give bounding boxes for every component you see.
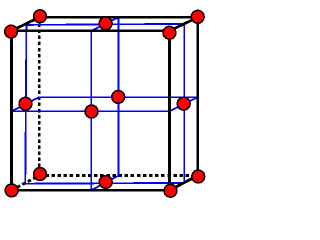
FCC unit cell diagram [0, 0, 213, 205]
hidden edge: bottom-left depth (dashed) [12, 176, 40, 191]
atom: back-bottom-right corner [192, 170, 205, 183]
atom: back-bottom-left corner [34, 168, 47, 181]
edge: front-left [10, 31, 13, 190]
edge: top-right depth [170, 17, 198, 31]
atom: back face center [112, 91, 125, 104]
atom: left face center [19, 97, 32, 110]
atom: front face center [85, 105, 98, 118]
edge: back-right vertical [196, 17, 199, 175]
atom: top face center [99, 17, 112, 30]
wire: bottom face depth midline (blue) [91, 176, 118, 191]
atom: front-bottom-right corner [164, 184, 177, 197]
wire: right face depth midline (blue) [170, 97, 198, 111]
atom: bottom face center [99, 176, 112, 189]
edge: front-top [12, 29, 170, 32]
wire: left face vertical midline (blue) [25, 25, 26, 184]
atom: front-top-right corner [163, 26, 176, 39]
wire: back face vertical midline (blue) [118, 17, 120, 175]
wire: top face lateral midline (blue) [26, 24, 184, 25]
wire: front face vertical midline (blue) [90, 31, 92, 190]
atom: back-top-right corner [191, 10, 204, 23]
edge: back-top [39, 16, 198, 19]
wire: left face depth midline (blue) [12, 97, 40, 111]
atom: right face center [177, 97, 190, 110]
wire: back face horizontal midline (blue) [39, 96, 198, 98]
wire: right face vertical midline (blue) [183, 25, 185, 184]
atom: back-top-left corner [34, 10, 47, 23]
edge: bottom-right depth [170, 176, 198, 191]
atom: front-top-left corner [5, 25, 18, 38]
edge: front-right [168, 31, 171, 190]
wire: bottom face lateral midline (blue) [25, 182, 184, 185]
hidden edge: back-left vertical (dashed) [38, 17, 41, 175]
edge: front-bottom [12, 189, 170, 192]
wire: top face depth midline (blue) [91, 17, 118, 31]
hidden edge: back-bottom horizontal (dashed) [39, 174, 198, 177]
wire: front face horizontal midline (blue) [12, 110, 170, 112]
edge: top-left depth [12, 17, 40, 31]
atom: front-bottom-left corner [5, 184, 18, 197]
